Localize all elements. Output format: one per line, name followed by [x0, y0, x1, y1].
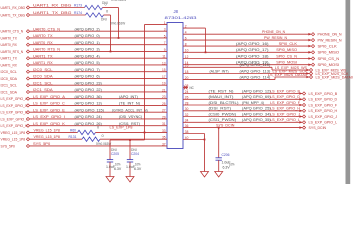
- svg-text:PHONE_ON_N: PHONE_ON_N: [318, 32, 342, 37]
- svg-text:(APQ GPIO_3): (APQ GPIO_3): [75, 47, 101, 52]
- svg-text:38: 38: [185, 130, 189, 134]
- svg-text:(APQ GPIO_16): (APQ GPIO_16): [236, 41, 269, 46]
- svg-text:SYS_5P0: SYS_5P0: [1, 144, 16, 149]
- svg-text:(APQ GPIO_114): (APQ GPIO_114): [240, 75, 271, 80]
- svg-text:SPI0_MISO: SPI0_MISO: [318, 50, 340, 55]
- svg-text:(APQ GPIO_5): (APQ GPIO_5): [75, 60, 101, 65]
- svg-text:30: 30: [185, 107, 189, 111]
- svg-text:I2C0_SDA: I2C0_SDA: [1, 76, 18, 81]
- svg-text:(APQ GPIO_34): (APQ GPIO_34): [242, 111, 271, 116]
- svg-text:LS_EXP_GPIO_J: LS_EXP_GPIO_J: [270, 111, 300, 116]
- svg-text:(DSI_RST): (DSI_RST): [209, 106, 232, 111]
- svg-text:32: 32: [185, 113, 189, 117]
- svg-text:LS_EXP_GPIO_C: LS_EXP_GPIO_C: [1, 103, 28, 108]
- svg-text:4: 4: [185, 31, 187, 35]
- svg-text:UART1_RX_DBG: UART1_RX_DBG: [33, 2, 71, 7]
- svg-text:SPI0_MOSI: SPI0_MOSI: [276, 60, 297, 65]
- svg-text:R173: R173: [74, 2, 82, 7]
- svg-text:C206: C206: [222, 153, 230, 157]
- svg-text:SPI0_CLK: SPI0_CLK: [318, 44, 338, 49]
- svg-text:UART0_CTS_N: UART0_CTS_N: [33, 26, 60, 31]
- svg-text:(APQ GPIO_18): (APQ GPIO_18): [236, 53, 269, 58]
- svg-text:UART1_RX_DBG: UART1_RX_DBG: [1, 5, 26, 10]
- svg-text:(APQ GPIO_110): (APQ GPIO_110): [240, 62, 271, 67]
- svg-text:SPI0_CS_N: SPI0_CS_N: [276, 53, 297, 58]
- svg-text:LS_EXP_GPIO_E: LS_EXP_GPIO_E: [33, 107, 65, 112]
- svg-text:LS_EXP_1P8: LS_EXP_1P8: [110, 125, 134, 130]
- svg-text:(APQ GPIO_36): (APQ GPIO_36): [75, 94, 103, 99]
- svg-text:10%: 10%: [115, 163, 120, 167]
- svg-text:UART1_RX: UART1_RX: [33, 60, 53, 65]
- svg-text:10: 10: [185, 49, 189, 53]
- svg-text:36: 36: [185, 124, 189, 128]
- svg-text:5%0.063W: 5%0.063W: [111, 0, 127, 2]
- svg-text:VREG_L15_1P8: VREG_L15_1P8: [1, 130, 26, 135]
- svg-text:(APQ GPIO_25): (APQ GPIO_25): [242, 106, 271, 111]
- svg-text:I2C0_SCL: I2C0_SCL: [33, 67, 53, 72]
- svg-text:20: 20: [185, 76, 189, 80]
- svg-text:SYS_5P0: SYS_5P0: [33, 141, 51, 146]
- svg-text:LS_EXP_GPIO_I: LS_EXP_GPIO_I: [33, 114, 65, 119]
- svg-text:C204: C204: [131, 152, 139, 156]
- svg-text:LS_EXP_GPIO_H: LS_EXP_GPIO_H: [270, 106, 300, 111]
- svg-text:UART0_TX: UART0_TX: [1, 35, 18, 40]
- svg-text:R60: R60: [70, 127, 77, 132]
- svg-text:SPI0_CS_N: SPI0_CS_N: [318, 56, 340, 61]
- svg-text:C205: C205: [111, 152, 119, 156]
- svg-text:DNI: DNI: [101, 17, 107, 21]
- svg-text:UART1_TX: UART1_TX: [1, 56, 18, 61]
- svg-text:R131: R131: [69, 134, 77, 139]
- svg-text:UART1_TX_DBG: UART1_TX_DBG: [1, 12, 26, 17]
- svg-text:I2C0_SDA: I2C0_SDA: [33, 74, 53, 79]
- svg-text:J8: J8: [174, 9, 179, 14]
- svg-text:SPI0_CLK: SPI0_CLK: [279, 41, 298, 46]
- svg-text:87301-4283: 87301-4283: [165, 15, 198, 20]
- svg-text:UART0_RTS_N: UART0_RTS_N: [1, 49, 24, 54]
- svg-text:SPI0_MISO: SPI0_MISO: [276, 47, 297, 52]
- svg-text:LS_EXP_GPIO_K: LS_EXP_GPIO_K: [33, 121, 65, 126]
- svg-text:LS_EXP_GPIO_H: LS_EXP_GPIO_H: [309, 108, 338, 113]
- svg-text:(APQ GPIO_12): (APQ GPIO_12): [242, 88, 271, 93]
- svg-text:(DSI_VSYNC): (DSI_VSYNC): [119, 114, 143, 119]
- svg-text:(APQ GPIO_1): (APQ GPIO_1): [75, 40, 101, 45]
- svg-text:(APQ GPIO_4): (APQ GPIO_4): [75, 53, 101, 58]
- svg-text:LS_EXP_GPIO_E: LS_EXP_GPIO_E: [1, 110, 28, 115]
- svg-text:34: 34: [185, 119, 189, 123]
- svg-text:16: 16: [185, 64, 189, 68]
- svg-text:(MAUI_INT): (MAUI_INT): [209, 94, 235, 99]
- svg-text:VREG_L15_1P8: VREG_L15_1P8: [34, 127, 60, 132]
- svg-text:(APQ GPIO_7): (APQ GPIO_7): [75, 67, 101, 72]
- svg-text:(APQ GPIO_115): (APQ GPIO_115): [75, 107, 105, 112]
- svg-text:LS_EXP_GPIO_B: LS_EXP_GPIO_B: [309, 91, 338, 96]
- svg-text:2: 2: [185, 24, 187, 28]
- svg-text:I2C1_SDA: I2C1_SDA: [1, 89, 18, 94]
- svg-text:LS_EXP_GPIO_C: LS_EXP_GPIO_C: [33, 101, 65, 106]
- svg-text:UART0_TX: UART0_TX: [33, 33, 53, 38]
- svg-text:8: 8: [185, 42, 187, 46]
- svg-text:(TE_INT_N): (TE_INT_N): [119, 101, 141, 106]
- svg-text:PHONE_ON_N: PHONE_ON_N: [262, 29, 285, 34]
- svg-text:LS_EXP_GPIO_F: LS_EXP_GPIO_F: [270, 100, 300, 105]
- svg-text:LS_EXP_GPIO_D: LS_EXP_GPIO_D: [309, 97, 338, 102]
- svg-text:UART0_RTS_N: UART0_RTS_N: [33, 47, 60, 52]
- svg-text:(APQ_INT): (APQ_INT): [119, 94, 139, 99]
- svg-text:SYS_DCIN: SYS_DCIN: [309, 125, 327, 130]
- svg-text:SPI0_MOSI: SPI0_MOSI: [318, 62, 340, 67]
- svg-text:LS_EXP_GPIO_K: LS_EXP_GPIO_K: [1, 123, 28, 128]
- svg-text:I2C0_SCL: I2C0_SCL: [1, 69, 18, 74]
- svg-text:UART1_TX_DBG: UART1_TX_DBG: [33, 10, 71, 15]
- svg-text:LS_EXP_GPIO_F: LS_EXP_GPIO_F: [309, 102, 338, 107]
- svg-text:NC: NC: [190, 85, 194, 90]
- svg-text:(CSI0_PWDN): (CSI0_PWDN): [209, 111, 237, 116]
- svg-text:VREG_L15_1P8: VREG_L15_1P8: [1, 137, 26, 142]
- svg-text:(DSI_BLCTRL): (DSI_BLCTRL): [209, 100, 240, 105]
- svg-text:(APQ GPIO_69): (APQ GPIO_69): [242, 94, 271, 99]
- svg-text:UART0_CTS_N: UART0_CTS_N: [1, 29, 24, 34]
- svg-text:22: 22: [185, 84, 189, 88]
- svg-text:6.3V: 6.3V: [223, 166, 231, 170]
- svg-text:LS_EXP_GPIO_A: LS_EXP_GPIO_A: [33, 94, 65, 99]
- svg-text:LS_EXP_MI2S_DATA0: LS_EXP_MI2S_DATA0: [316, 74, 354, 79]
- svg-text:R174: R174: [74, 10, 83, 15]
- svg-text:(APQ GPIO_113): (APQ GPIO_113): [240, 68, 271, 73]
- svg-text:LS_EXP_GPIO_D: LS_EXP_GPIO_D: [270, 94, 300, 99]
- svg-text:(ALSP_INT): (ALSP_INT): [210, 68, 230, 73]
- svg-text:DNI: DNI: [102, 1, 108, 5]
- svg-text:(APQ GPIO_17): (APQ GPIO_17): [236, 47, 269, 52]
- svg-text:I2C1_SCL: I2C1_SCL: [1, 83, 18, 88]
- svg-text:(PM_MPP_4): (PM_MPP_4): [242, 100, 265, 105]
- svg-text:LS_EXP_GPIO_A: LS_EXP_GPIO_A: [1, 96, 28, 101]
- svg-text:(APQ GPIO_23): (APQ GPIO_23): [75, 80, 103, 85]
- svg-text:(TE_RST_N): (TE_RST_N): [209, 88, 235, 93]
- svg-text:PW_RESIN_N: PW_RESIN_N: [264, 35, 287, 40]
- svg-text:6: 6: [185, 36, 187, 40]
- svg-text:10%: 10%: [135, 163, 140, 167]
- svg-text:5%0.063W: 5%0.063W: [110, 21, 126, 25]
- svg-text:(APQ GPIO_22): (APQ GPIO_22): [75, 87, 103, 92]
- svg-text:(GYRO_ACCL_INT_N): (GYRO_ACCL_INT_N): [112, 107, 148, 112]
- svg-text:I2C1_SCL: I2C1_SCL: [33, 80, 53, 85]
- svg-text:I2C1_SDA: I2C1_SDA: [33, 87, 53, 92]
- svg-text:(APQ GPIO_35): (APQ GPIO_35): [242, 117, 271, 122]
- svg-text:24: 24: [185, 90, 189, 94]
- svg-text:LS_EXP_GPIO_J: LS_EXP_GPIO_J: [309, 114, 338, 119]
- svg-text:UART1_TX: UART1_TX: [33, 53, 53, 58]
- svg-text:PW_RESIN_N: PW_RESIN_N: [318, 38, 342, 43]
- svg-text:6.3V: 6.3V: [134, 167, 142, 171]
- svg-text:(APQ GPIO_13): (APQ GPIO_13): [75, 101, 103, 106]
- svg-text:18: 18: [185, 70, 189, 74]
- svg-text:40: 40: [185, 136, 189, 140]
- svg-text:(APQ GPIO_6): (APQ GPIO_6): [75, 74, 101, 79]
- svg-text:12: 12: [185, 55, 189, 59]
- svg-text:(APQ GPIO_0): (APQ GPIO_0): [75, 33, 101, 38]
- svg-text:LS_EXP_GPIO_L: LS_EXP_GPIO_L: [270, 117, 301, 122]
- svg-text:UART1_RX: UART1_RX: [1, 62, 18, 67]
- svg-text:UART0_RX: UART0_RX: [1, 42, 18, 47]
- svg-text:LS_EXP_GPIO_L: LS_EXP_GPIO_L: [309, 120, 338, 125]
- svg-text:28: 28: [185, 101, 189, 105]
- svg-text:LS_EXP_GPIO_B: LS_EXP_GPIO_B: [270, 88, 300, 93]
- svg-text:UART0_RX: UART0_RX: [33, 40, 53, 45]
- svg-text:LS_EXP_GPIO_I: LS_EXP_GPIO_I: [1, 116, 28, 121]
- svg-text:6.3V: 6.3V: [114, 167, 122, 171]
- svg-text:VREG_L15_1P8: VREG_L15_1P8: [34, 134, 60, 139]
- svg-text:(APQ GPIO_2): (APQ GPIO_2): [75, 26, 101, 31]
- svg-text:10%: 10%: [229, 163, 234, 167]
- svg-text:(APQ GPIO_24): (APQ GPIO_24): [75, 114, 103, 119]
- svg-text:26: 26: [185, 96, 189, 100]
- svg-text:(CSI1_PWDN): (CSI1_PWDN): [209, 117, 237, 122]
- svg-text:LS_EXP_MI2S_DATA0: LS_EXP_MI2S_DATA0: [268, 72, 308, 77]
